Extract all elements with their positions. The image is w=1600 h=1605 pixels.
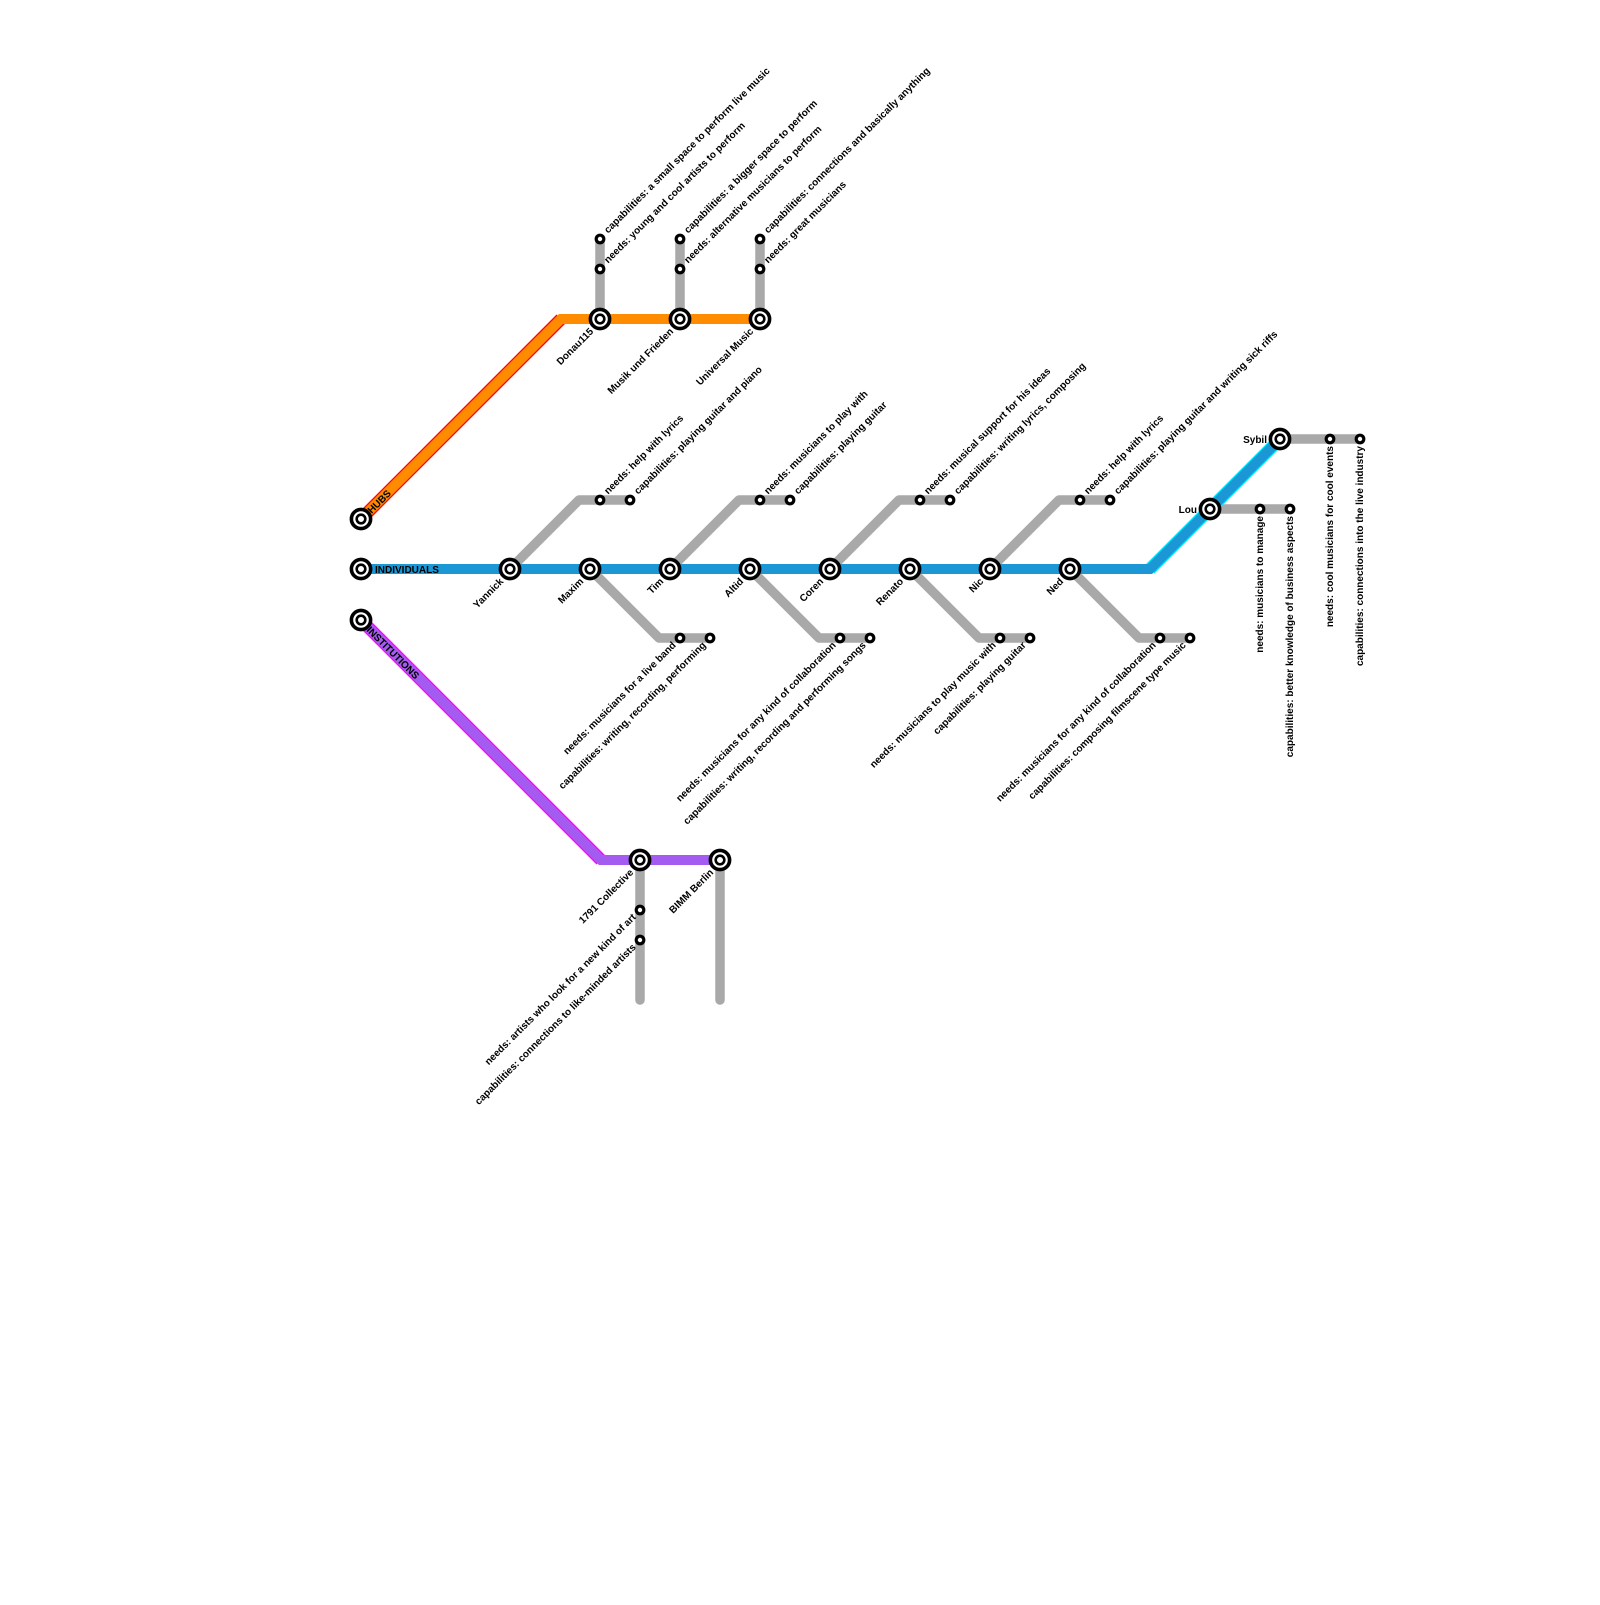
line HUBS (orange) bbox=[361, 319, 760, 519]
svg-text:capabilities: connections to l: capabilities: connections to like-minded… bbox=[473, 942, 639, 1108]
station Nic bbox=[980, 559, 999, 578]
svg-text:capabilities: writing, recordi: capabilities: writing, recording and per… bbox=[682, 640, 869, 827]
node Donau115-needs bbox=[596, 265, 604, 273]
node MusikUndFrieden-capabilities bbox=[676, 235, 684, 243]
station Universal Music bbox=[750, 309, 769, 328]
node Sybil-capabilities bbox=[1356, 435, 1364, 443]
station Maxim bbox=[580, 559, 599, 578]
node UniversalMusic-capabilities bbox=[756, 235, 764, 243]
wire branch Nic-up bbox=[990, 500, 1110, 569]
node Coren-capabilities bbox=[946, 496, 954, 504]
station Lou bbox=[1200, 499, 1219, 518]
line INSTITUTIONS (purple) bbox=[361, 620, 720, 860]
svg-text:INDIVIDUALS: INDIVIDUALS bbox=[375, 565, 439, 576]
svg-text:Lou: Lou bbox=[1179, 505, 1197, 516]
node Maxim-needs bbox=[676, 634, 684, 642]
node Sybil-needs bbox=[1326, 435, 1334, 443]
wire branch MusikUndFrieden bbox=[675, 239, 685, 319]
svg-text:capabilities: composing filmsc: capabilities: composing filmscene type m… bbox=[1027, 640, 1189, 802]
station Coren bbox=[820, 559, 839, 578]
wire branch Tim-up bbox=[670, 500, 790, 569]
wire branch Maxim-down bbox=[590, 569, 710, 638]
svg-text:Altid: Altid bbox=[723, 576, 746, 599]
svg-text:Coren: Coren bbox=[798, 576, 826, 604]
node Coren-needs bbox=[916, 496, 924, 504]
svg-text:Tim: Tim bbox=[646, 576, 666, 596]
station BIMM Berlin bbox=[710, 850, 729, 869]
wire branch Donau115 bbox=[595, 239, 605, 319]
node Maxim-capabilities bbox=[706, 634, 714, 642]
station INSTITUTIONS terminal bbox=[351, 610, 370, 629]
station Yannick bbox=[500, 559, 519, 578]
svg-text:Sybil: Sybil bbox=[1243, 435, 1267, 446]
svg-text:Renato: Renato bbox=[874, 576, 906, 608]
node Tim-needs bbox=[756, 496, 764, 504]
svg-text:needs: musicians to play with: needs: musicians to play with bbox=[762, 389, 870, 497]
station Donau115 bbox=[590, 309, 609, 328]
svg-text:capabilities: writing, recordi: capabilities: writing, recording, perfor… bbox=[557, 640, 709, 792]
node Nic-capabilities bbox=[1106, 496, 1114, 504]
svg-text:Donau115: Donau115 bbox=[555, 326, 596, 367]
node Renato-capabilities bbox=[1026, 634, 1034, 642]
svg-text:capabilities: writing lyrics,: capabilities: writing lyrics, composing bbox=[952, 361, 1088, 497]
wire branch 1791Collective bbox=[635, 860, 645, 1000]
node Altid-capabilities bbox=[866, 634, 874, 642]
wire branch Altid-down bbox=[750, 569, 870, 638]
svg-text:capabilities: a small space to: capabilities: a small space to perform l… bbox=[602, 65, 772, 235]
wire branch UniversalMusic bbox=[755, 239, 765, 319]
svg-text:needs: musicians to play music: needs: musicians to play music with bbox=[868, 640, 998, 770]
svg-text:needs: cool musicians for cool: needs: cool musicians for cool events bbox=[1325, 446, 1336, 628]
station Musik und Frieden bbox=[670, 309, 689, 328]
node Ned-needs bbox=[1156, 634, 1164, 642]
svg-text:capabilities: better knowledge: capabilities: better knowledge of busine… bbox=[1285, 516, 1296, 758]
wire branch Lou bbox=[1210, 504, 1290, 514]
node Yannick-needs bbox=[596, 496, 604, 504]
station 1791 Collective bbox=[630, 850, 649, 869]
node Nic-needs bbox=[1076, 496, 1084, 504]
node Renato-needs bbox=[996, 634, 1004, 642]
node Lou-needs bbox=[1256, 505, 1264, 513]
wire branch BIMMBerlin bbox=[715, 860, 725, 1000]
svg-text:INSTITUTIONS: INSTITUTIONS bbox=[364, 625, 421, 682]
node 1791-needs bbox=[636, 906, 644, 914]
wire branch Coren-up bbox=[830, 500, 950, 569]
svg-text:Musik und Frieden: Musik und Frieden bbox=[606, 326, 676, 396]
node Tim-capabilities bbox=[786, 496, 794, 504]
station Altid bbox=[740, 559, 759, 578]
line INDIVIDUALS (blue) bbox=[361, 439, 1280, 569]
node UniversalMusic-needs bbox=[756, 265, 764, 273]
station INDIVIDUALS terminal bbox=[351, 559, 370, 578]
node Lou-capabilities bbox=[1286, 505, 1294, 513]
station HUBS terminal bbox=[351, 509, 370, 528]
svg-text:Yannick: Yannick bbox=[472, 576, 507, 611]
svg-text:needs: musicians for any kind: needs: musicians for any kind of collabo… bbox=[994, 640, 1158, 804]
node Yannick-capabilities bbox=[626, 496, 634, 504]
svg-text:needs: artists who look for a: needs: artists who look for a new kind o… bbox=[483, 912, 639, 1068]
wire branch Yannick-up bbox=[510, 500, 630, 569]
svg-text:Ned: Ned bbox=[1045, 576, 1066, 597]
node Ned-capabilities bbox=[1186, 634, 1194, 642]
station Renato bbox=[900, 559, 919, 578]
wire branch Sybil bbox=[1280, 434, 1360, 444]
node 1791-capabilities bbox=[636, 936, 644, 944]
station Sybil bbox=[1270, 429, 1289, 448]
svg-text:BIMM Berlin: BIMM Berlin bbox=[667, 867, 716, 916]
svg-text:Nic: Nic bbox=[967, 576, 986, 595]
svg-text:needs: musicians for any kind: needs: musicians for any kind of collabo… bbox=[674, 640, 838, 804]
svg-text:needs: musical support for his: needs: musical support for his ideas bbox=[922, 366, 1053, 497]
wire branch Ned-down bbox=[1070, 569, 1190, 638]
node Donau115-capabilities bbox=[596, 235, 604, 243]
station Tim bbox=[660, 559, 679, 578]
svg-text:capabilities: connections and: capabilities: connections and basically … bbox=[762, 66, 932, 236]
svg-text:capabilities: connections into: capabilities: connections into the live … bbox=[1355, 446, 1366, 666]
svg-text:needs: musicians to manage: needs: musicians to manage bbox=[1255, 516, 1266, 653]
node Altid-needs bbox=[836, 634, 844, 642]
wire branch Renato-down bbox=[910, 569, 1030, 638]
station Ned bbox=[1060, 559, 1079, 578]
svg-text:Maxim: Maxim bbox=[556, 576, 586, 606]
node MusikUndFrieden-needs bbox=[676, 265, 684, 273]
svg-text:needs: musicians for a live ba: needs: musicians for a live band bbox=[562, 640, 679, 757]
